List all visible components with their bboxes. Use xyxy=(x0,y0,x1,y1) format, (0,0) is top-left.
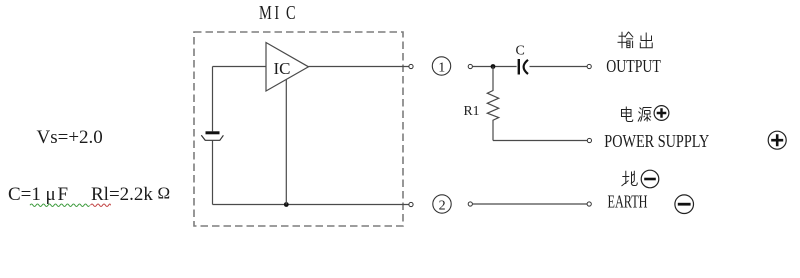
plus symbol (far right) xyxy=(768,131,786,149)
wire: amp output xyxy=(309,66,410,68)
svg-text:R1: R1 xyxy=(464,104,480,119)
dashed enclosure (mic module) xyxy=(194,32,403,226)
terminal: module output pin xyxy=(409,64,413,68)
resistor R1 xyxy=(487,67,498,141)
svg-text:POWER SUPPLY: POWER SUPPLY xyxy=(604,131,709,151)
wire: earth row xyxy=(473,203,588,205)
svg-text:OUTPUT: OUTPUT xyxy=(606,56,661,76)
terminal: power right xyxy=(587,138,591,142)
svg-text:C: C xyxy=(516,44,525,59)
wire: output row to capacitor xyxy=(473,66,517,68)
svg-text:1: 1 xyxy=(438,61,445,76)
red wavy underline (spellcheck) xyxy=(91,204,111,207)
label yuan (Chinese: power char 2) xyxy=(638,108,652,122)
svg-text:F: F xyxy=(58,184,69,205)
wire: amp input to left rail xyxy=(213,66,267,68)
svg-text:C: C xyxy=(286,1,296,24)
minus symbol (earth label) xyxy=(641,170,659,188)
wire: capacitor to output terminal xyxy=(530,66,588,68)
svg-text:μ: μ xyxy=(46,184,56,205)
svg-text:2: 2 xyxy=(439,199,446,214)
terminal: earth right xyxy=(587,202,591,206)
electret capsule element (top plate) xyxy=(206,131,220,134)
wire: amp ground to bottom bus xyxy=(285,80,287,205)
junction at R1 top xyxy=(491,64,496,69)
svg-text:Ω: Ω xyxy=(158,184,171,203)
pin label 1 xyxy=(432,57,450,75)
wire: bottom bus xyxy=(213,204,410,206)
label shu (Chinese: output char 1) xyxy=(618,32,634,48)
minus symbol (right of EARTH) xyxy=(675,195,694,214)
wire: left rail down to capsule xyxy=(212,67,214,132)
label MIC xyxy=(259,1,296,24)
svg-text:IC: IC xyxy=(274,59,291,78)
svg-text:Vs=+2.0: Vs=+2.0 xyxy=(37,127,103,148)
pin label 2 xyxy=(433,195,451,213)
label di (Chinese: earth char) xyxy=(622,171,638,186)
svg-text:I: I xyxy=(274,1,279,24)
terminal: output right xyxy=(587,64,591,68)
electret capsule element (cup plate) xyxy=(201,135,223,140)
op-amp U1 (IC) xyxy=(266,43,309,92)
svg-text:EARTH: EARTH xyxy=(608,192,648,212)
wire: capsule to bottom bus xyxy=(212,140,214,204)
svg-text:M: M xyxy=(259,1,272,24)
capacitor C (left plate) xyxy=(518,59,520,75)
terminal: earth row left xyxy=(468,202,472,206)
junction on bottom bus xyxy=(284,202,289,207)
svg-text:Rl=2.2k: Rl=2.2k xyxy=(91,184,153,205)
capacitor C (curved plate) xyxy=(524,60,528,74)
terminal: output row left xyxy=(468,64,472,68)
green wavy underline (spellcheck) xyxy=(30,204,90,207)
plus symbol (power label) xyxy=(654,106,669,121)
label chu (Chinese: output char 2) xyxy=(640,33,652,48)
svg-text:C=1: C=1 xyxy=(8,184,41,205)
terminal: module ground pin xyxy=(409,202,413,206)
label dian (Chinese: power char 1) xyxy=(622,107,633,122)
wire: power row xyxy=(493,140,587,142)
